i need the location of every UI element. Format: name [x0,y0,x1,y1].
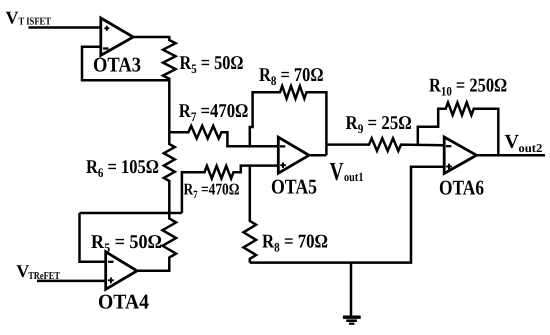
svg-text:R10 = 250Ω: R10 = 250Ω [429,75,507,98]
svg-text:TReFET: TReFET [28,271,60,282]
svg-text:R7 =470Ω: R7 =470Ω [184,180,240,202]
svg-text:OTA4: OTA4 [98,289,149,313]
svg-text:R8 = 70Ω: R8 = 70Ω [262,231,328,254]
svg-text:OTA6: OTA6 [439,176,484,200]
svg-text:out1: out1 [344,170,364,184]
svg-text:V: V [330,157,344,186]
svg-text:R5 = 50Ω: R5 = 50Ω [91,232,162,255]
svg-text:V: V [6,8,19,28]
svg-text:V: V [505,131,520,153]
svg-text:R6 = 105Ω: R6 = 105Ω [86,157,159,180]
svg-text:R8 = 70Ω: R8 = 70Ω [259,65,324,88]
svg-text:OTA5: OTA5 [271,174,317,198]
svg-text:R9 = 25Ω: R9 = 25Ω [346,113,412,136]
svg-text:OTA3: OTA3 [93,53,141,77]
svg-text:R5 = 50Ω: R5 = 50Ω [180,53,244,76]
svg-text:T ISFET: T ISFET [19,16,52,27]
svg-text:R7 =470Ω: R7 =470Ω [179,101,249,124]
svg-text:out2: out2 [518,141,542,155]
